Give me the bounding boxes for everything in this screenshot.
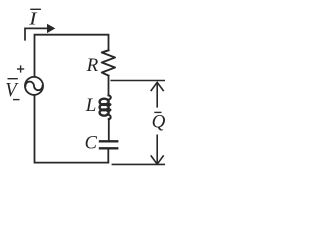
inductor connector 1 [107, 104, 110, 106]
plus sign [17, 65, 24, 72]
inductor entry curl [108, 95, 111, 100]
svg-text:R: R [86, 55, 99, 76]
arrowhead down [151, 156, 163, 164]
capacitor stem [107, 149, 109, 162]
inductor connector 2 [107, 109, 110, 111]
svg-text:Q: Q [152, 112, 166, 133]
svg-text:I: I [28, 9, 38, 29]
capacitor C plates [100, 140, 117, 142]
wire left-bottom [35, 96, 109, 163]
minus sign [13, 99, 20, 101]
resistor R [102, 50, 115, 75]
label V overbar [8, 78, 18, 80]
label I overbar [30, 8, 41, 10]
tap line node A [111, 80, 164, 82]
bottom tick line node B [112, 163, 164, 165]
arrowhead up [151, 82, 163, 90]
Q arrow upper shaft [156, 84, 158, 107]
current arrow line [25, 28, 48, 39]
label Q overbar [154, 111, 161, 113]
inductor exit curl [107, 114, 110, 119]
svg-text:L: L [85, 95, 97, 116]
wire L to C [108, 119, 110, 140]
wire R to L [108, 76, 110, 96]
wire top [35, 35, 109, 77]
ac source V1 [25, 77, 43, 95]
arrowhead current I [47, 24, 55, 33]
Q arrow lower shaft [156, 135, 158, 163]
inductor L [100, 99, 109, 116]
sine wave [25, 82, 42, 91]
svg-text:C: C [85, 134, 98, 154]
svg-text:V: V [5, 79, 19, 101]
